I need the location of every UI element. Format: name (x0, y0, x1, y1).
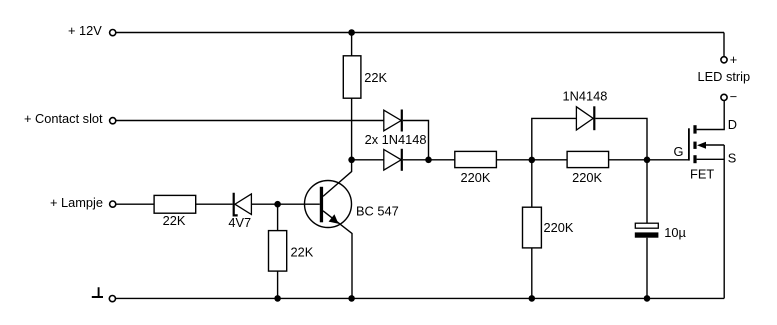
terminal LED strip plus (721, 57, 727, 63)
terminal +12V (110, 29, 116, 35)
junction node B (529, 157, 536, 164)
svg-text:+ Contact slot: + Contact slot (24, 111, 103, 126)
diode D2 1N4148 bottom (384, 149, 402, 171)
terminal contact slot (110, 118, 116, 124)
svg-text:+ Lampje: + Lampje (50, 195, 103, 210)
FET U1 (689, 125, 706, 163)
svg-text:S: S (728, 151, 737, 166)
wire collector node to bottom diode (352, 159, 384, 161)
wire capacitor to ground rail (646, 238, 648, 299)
wire node B down to R6 (531, 160, 533, 207)
svg-text:22K: 22K (364, 70, 387, 85)
wire 12V to R1 top (351, 33, 353, 56)
terminal lampje (110, 201, 116, 207)
wire node C to FET gate (647, 159, 688, 161)
ground symbol (92, 287, 103, 297)
zener diode D4 4V7 (234, 193, 252, 216)
wire LED strip minus to drain (697, 101, 725, 130)
junction rail R6 (529, 295, 536, 302)
svg-text:220K: 220K (544, 220, 574, 235)
diode D1 1N4148 top (384, 110, 402, 132)
svg-text:FET: FET (690, 167, 714, 182)
wire contact slot row (116, 120, 384, 122)
resistor R4 220K first (455, 151, 497, 167)
wire node A down to R3 (277, 204, 279, 230)
svg-text:BC 547: BC 547 (356, 204, 399, 219)
junction top rail / R1 (348, 29, 355, 36)
svg-text:22K: 22K (291, 244, 314, 259)
terminal ground (109, 296, 115, 302)
svg-text:G: G (674, 144, 684, 159)
resistor R5 220K second (567, 151, 609, 167)
wire D3 cathode right and down to node C (595, 118, 647, 159)
resistor R2 22K lampje (154, 195, 196, 213)
wire R2 to zener (196, 203, 233, 205)
wire FET source down right side (723, 145, 725, 298)
junction collector node (348, 157, 355, 164)
junction node C (644, 157, 651, 164)
junction rail emitter (348, 295, 355, 302)
diode D3 1N4148 top right (576, 106, 594, 130)
junction rail R3 (274, 295, 281, 302)
svg-text:1N4148: 1N4148 (563, 88, 608, 103)
capacitor C1 10u bottom plate (635, 232, 659, 237)
svg-text:10µ: 10µ (664, 225, 686, 240)
wire +12V top rail (116, 32, 724, 34)
wire R5 to node C (609, 159, 647, 161)
resistor R3 22K base (269, 231, 287, 272)
wire node A to base (278, 203, 320, 205)
wire emitter lead (323, 211, 352, 299)
svg-text:−: − (730, 89, 737, 104)
wire node B to R5 (532, 159, 567, 161)
wire FET body to source line (705, 144, 724, 146)
wire lampje to R2 (116, 203, 154, 205)
wire top-right drop to LED strip + (723, 33, 725, 57)
svg-text:220K: 220K (461, 170, 491, 185)
junction diode cathodes node (425, 157, 432, 164)
wire FET source stub (697, 158, 725, 160)
svg-text:LED strip: LED strip (698, 69, 751, 84)
resistor R6 220K vertical (523, 207, 542, 248)
wire ground rail (115, 297, 724, 299)
wire node B up and right to D3 anode (532, 118, 577, 159)
wire R1 bottom to collector node (351, 98, 353, 160)
wire R6 to ground rail (531, 248, 533, 299)
wire collector lead (323, 160, 352, 197)
svg-text:+ 12V: + 12V (68, 23, 102, 38)
resistor R1 22K vertical top (343, 56, 361, 98)
wire top diode cathode to drop (403, 121, 429, 160)
svg-text:D: D (728, 117, 737, 132)
wire R4 to node B (496, 159, 531, 161)
svg-text:2x 1N4148: 2x 1N4148 (365, 132, 427, 147)
transistor Q1 BC547 (305, 181, 352, 228)
svg-text:22K: 22K (163, 213, 186, 228)
wire node to R4 (429, 159, 456, 161)
wire R3 to ground rail (277, 271, 279, 298)
wire node C down to capacitor (646, 160, 648, 223)
wire zener to node A (251, 203, 277, 205)
capacitor C1 10u top plate (635, 223, 658, 228)
svg-text:+: + (730, 52, 737, 67)
junction node A base (274, 201, 281, 208)
wire bottom diode cathode to node (403, 159, 429, 161)
terminal LED strip minus (721, 94, 727, 100)
junction rail capacitor (644, 295, 651, 302)
svg-text:220K: 220K (572, 170, 602, 185)
svg-text:4V7: 4V7 (228, 215, 251, 230)
